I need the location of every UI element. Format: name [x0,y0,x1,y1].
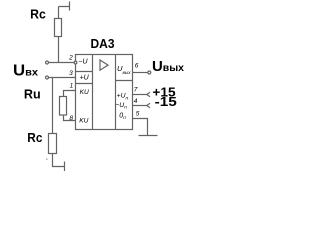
terminal Uвх lower [46,76,49,79]
svg-text:Uвх: Uвх [13,63,38,80]
op-amp right field line [116,80,133,82]
svg-text:8: 8 [69,115,73,122]
wire Rc1 bottom lead to node A [58,37,60,63]
wire pin7 +15 [133,94,147,96]
op-amp U1 DA3 body [76,55,133,130]
svg-text:Rc: Rc [30,8,46,22]
svg-text:-15: -15 [155,94,177,109]
op-amp triangle symbol [100,60,108,70]
speck [46,159,47,160]
ground [139,135,158,137]
power terminal top (tick) [59,2,70,11]
connector socket +15 [147,92,150,96]
terminal Uвых [148,71,151,74]
svg-text:3: 3 [69,70,73,77]
wire Rc2 bottom lead [53,154,65,167]
wire pin5 to ground [133,119,148,136]
svg-text:−U: −U [78,58,88,65]
wire Ru top lead to pin1 [64,91,76,97]
wire pin3 input [49,77,76,79]
resistor Rc1 [55,19,62,37]
connector socket -15 [147,103,150,107]
svg-text:4: 4 [134,98,138,105]
svg-text:Rc: Rc [27,131,42,145]
inversion circle pin2 [74,61,77,64]
resistor Ru [60,97,67,116]
svg-text:DA3: DA3 [91,36,115,51]
svg-text:2: 2 [68,55,73,62]
wire pin6 output [133,72,148,74]
op-amp divider right [115,55,117,130]
svg-text:KU: KU [79,118,88,125]
wire Ru bottom lead to pin8 [64,115,76,121]
svg-text:5: 5 [136,111,140,118]
wire node B down to Rc2 [52,78,54,134]
wire pin2 input [49,62,75,64]
svg-text:+U: +U [80,74,90,81]
op-amp left field line 2 [76,83,93,85]
svg-text:Uвых: Uвых [152,58,184,75]
wire Rc1 top lead [58,7,60,19]
svg-text:1: 1 [70,82,74,89]
wire pin4 -15 [133,105,147,107]
op-amp divider left [92,55,94,130]
svg-text:6: 6 [135,63,139,70]
svg-text:7: 7 [134,87,138,94]
terminal Uвх upper [46,61,49,64]
svg-text:Ru: Ru [24,87,41,101]
svg-text:KU: KU [80,89,89,96]
resistor Rc2 [49,134,57,154]
op-amp left field line 1 [76,71,93,73]
power terminal bottom (tick) [64,162,66,172]
